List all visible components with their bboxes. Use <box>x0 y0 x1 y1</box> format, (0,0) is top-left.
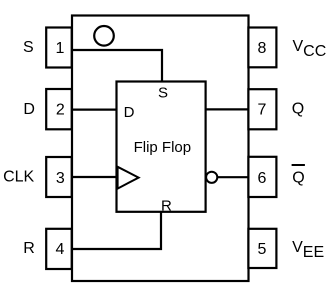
flip-flop block U1A <box>117 82 206 212</box>
svg-text:VEE: VEE <box>292 239 324 261</box>
svg-text:R: R <box>161 197 172 214</box>
svg-text:R: R <box>23 240 35 257</box>
svg-text:1: 1 <box>56 40 65 57</box>
pin 2 box <box>46 89 71 129</box>
clock input triangle <box>118 167 139 189</box>
svg-text:Q: Q <box>292 100 304 117</box>
pin-1 indicator circle <box>94 26 114 46</box>
svg-text:2: 2 <box>56 101 65 118</box>
svg-text:D: D <box>124 104 135 121</box>
pin 5 box <box>248 229 276 268</box>
svg-text:6: 6 <box>258 170 267 187</box>
IC body U1 <box>72 16 249 282</box>
svg-text:CLK: CLK <box>3 169 34 186</box>
pin 1 box <box>46 28 71 68</box>
svg-text:S: S <box>23 39 34 56</box>
wire Q: flip-flop Q output to pin 7 <box>206 108 249 110</box>
svg-text:D: D <box>23 101 35 118</box>
svg-text:Flip Flop: Flip Flop <box>134 139 192 156</box>
svg-text:3: 3 <box>56 170 65 187</box>
inverted output bubble <box>206 172 217 183</box>
Q-bar overline <box>292 164 305 166</box>
svg-text:8: 8 <box>258 40 267 57</box>
wire CLK: pin 3 to clock input <box>72 176 117 178</box>
wire R: pin 4 to flip-flop R input <box>73 212 161 249</box>
pin 6 box <box>248 157 276 197</box>
svg-text:4: 4 <box>56 241 65 258</box>
pin 8 box <box>248 28 276 68</box>
svg-text:VCC: VCC <box>293 38 327 60</box>
pin 4 box <box>46 229 71 269</box>
wire Q-bar: bubble to pin 6 <box>218 176 249 178</box>
pin 3 box <box>46 157 71 197</box>
svg-text:S: S <box>158 85 168 102</box>
pin 7 box <box>248 89 276 129</box>
svg-text:5: 5 <box>258 241 267 258</box>
svg-text:7: 7 <box>258 101 267 118</box>
wire D: pin 2 to flip-flop D input <box>72 108 117 110</box>
svg-text:Q: Q <box>292 170 304 187</box>
wire S: pin 1 to flip-flop S input <box>72 50 162 82</box>
